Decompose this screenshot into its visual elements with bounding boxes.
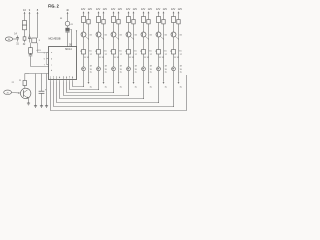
wire column 2 left mid1 xyxy=(98,23,100,33)
column 6 group xyxy=(155,8,168,103)
transistor Q3 xyxy=(111,32,116,37)
wire nest pin stubs xyxy=(50,80,52,82)
wire nest route 7 xyxy=(54,82,174,107)
wire column 2 left mid3 xyxy=(98,54,100,67)
svg-text:5: 5 xyxy=(44,53,45,55)
wire R4 collector xyxy=(24,74,26,81)
resistor R51 xyxy=(142,17,146,23)
wire oval to network xyxy=(13,38,17,40)
resistor R72 xyxy=(172,50,176,55)
svg-text:12V: 12V xyxy=(118,8,123,11)
ground G3 xyxy=(45,105,48,108)
wire drop x41 upper xyxy=(41,74,43,92)
wire input arrow xyxy=(12,92,20,94)
wire left rail 3 xyxy=(37,13,39,38)
wire column 5 left mid2 xyxy=(143,37,145,50)
transistor Q4 xyxy=(126,32,131,37)
LED D2 xyxy=(97,67,101,71)
svg-text:11 12: 11 12 xyxy=(129,57,135,59)
wire column 1 left mid1 xyxy=(83,23,85,33)
wire column 5 right terminal arrow xyxy=(148,82,150,84)
wire column 3 left mid2 xyxy=(113,37,115,50)
resistor R14 on right rail xyxy=(87,20,90,24)
wire column 6 left mid2 xyxy=(158,37,160,50)
transistor Q10 xyxy=(21,88,31,98)
wire column 5 left mid1 xyxy=(143,23,145,33)
wire column 7 right vertical xyxy=(178,13,180,82)
wire column 4 left mid3 xyxy=(128,54,130,67)
crystal Y1 xyxy=(32,38,41,43)
wire column 6 left bottom into nest xyxy=(158,71,160,103)
wire column 4 left mid1 xyxy=(128,23,130,33)
wire column 4 left top xyxy=(128,13,130,17)
wire column 7 left mid2 xyxy=(173,37,175,50)
wire Q3 emitter to right rail xyxy=(115,36,119,39)
svg-text:12V: 12V xyxy=(88,8,93,11)
svg-text:11 12: 11 12 xyxy=(114,57,120,59)
svg-text:12V: 12V xyxy=(156,8,161,11)
wire nest route 5 xyxy=(60,82,144,99)
svg-text:12V: 12V xyxy=(103,8,108,11)
wire column 5 left bottom into nest xyxy=(143,71,145,99)
column 7 group xyxy=(170,8,183,107)
transistor Q1 xyxy=(81,32,86,37)
wire column 4 left mid2 xyxy=(128,37,130,50)
column 1 group xyxy=(80,8,93,89)
pin stub left 2 xyxy=(47,58,49,60)
wire column 3 right terminal arrow xyxy=(118,82,120,84)
transistor Q2 xyxy=(96,32,101,37)
resistor R41 xyxy=(127,17,131,23)
svg-text:11 12: 11 12 xyxy=(99,57,105,59)
wire column 4 left bottom into nest xyxy=(128,71,130,96)
svg-text:12V: 12V xyxy=(96,8,101,11)
wire nest route 1 xyxy=(73,82,84,87)
op-amp U1 IC block MC14553 xyxy=(49,47,77,80)
ground G2 xyxy=(40,105,43,108)
wire column 5 left top xyxy=(143,13,145,17)
wire left rail 1 xyxy=(24,13,26,35)
wire column 1 right vertical xyxy=(88,13,90,82)
resistor R31 xyxy=(112,17,116,23)
LED D3 xyxy=(112,67,116,71)
wire second into IC top xyxy=(71,29,73,46)
resistor R44 on right rail xyxy=(132,20,135,24)
resistor R1 xyxy=(23,21,27,26)
ground G1 xyxy=(34,105,37,108)
wire column 1 left mid3 xyxy=(83,54,85,67)
transistor Q5 xyxy=(141,32,146,37)
wire drop x35 xyxy=(29,73,49,75)
resistor R22 xyxy=(97,50,101,55)
wire drop x46.7 xyxy=(46,74,48,105)
wire Q2 emitter to right rail xyxy=(100,36,104,39)
wire left rail 2 xyxy=(29,13,31,36)
svg-text:12V: 12V xyxy=(163,8,168,11)
resistor R21 xyxy=(97,17,101,23)
svg-text:6: 6 xyxy=(44,59,45,61)
wire column 2 right vertical xyxy=(103,13,105,82)
wire crystal chain down xyxy=(30,43,32,48)
svg-text:7: 7 xyxy=(44,65,45,67)
LED D5 xyxy=(142,67,146,71)
LED D7 xyxy=(172,67,176,71)
wire column 6 left mid3 xyxy=(158,54,160,67)
wire column 3 left top xyxy=(113,13,115,17)
svg-text:12V: 12V xyxy=(178,8,183,11)
resistor R2 xyxy=(23,25,27,30)
wire nest route 2 xyxy=(70,82,99,90)
wire column 4 right vertical xyxy=(133,13,135,82)
column 5 group xyxy=(140,8,153,99)
wire column 6 right terminal arrow xyxy=(163,82,165,84)
wire drop x41 lower xyxy=(41,93,43,104)
wire column 1 left mid2 xyxy=(83,37,85,50)
node input oval 30 xyxy=(5,37,12,41)
wire column 3 right vertical xyxy=(118,13,120,82)
resistor R11 xyxy=(82,17,86,23)
column 3 group xyxy=(110,8,123,93)
svg-text:12V: 12V xyxy=(111,8,116,11)
resistor R4 xyxy=(23,81,27,86)
wire column 3 left bottom into nest xyxy=(113,71,115,93)
wire left pins bus xyxy=(46,53,48,65)
wire Q6 emitter to right rail xyxy=(160,36,164,39)
wire column 2 right terminal arrow xyxy=(103,82,105,84)
wire column 5 right vertical xyxy=(148,13,150,82)
svg-text:12V: 12V xyxy=(126,8,131,11)
wire Q7 emitter to right rail xyxy=(175,36,179,39)
resistor R52 xyxy=(142,50,146,55)
resistor R24 on right rail xyxy=(102,20,105,24)
svg-text:d: d xyxy=(51,70,52,72)
resistor R61 xyxy=(157,17,161,23)
capacitor C3 xyxy=(28,34,31,42)
svg-text:12V: 12V xyxy=(81,8,86,11)
resistor R64 on right rail xyxy=(162,20,165,24)
wire column 6 left mid1 xyxy=(158,23,160,33)
column 2 group xyxy=(95,8,108,90)
wire column 2 left bottom into nest xyxy=(98,71,100,90)
wire IC right top stub xyxy=(76,31,78,47)
wire column 3 left mid1 xyxy=(113,23,115,33)
LED D1 xyxy=(82,67,86,71)
wire column 6 right vertical xyxy=(163,13,165,82)
transistor Q6 xyxy=(156,32,161,37)
resistor R12 xyxy=(82,50,86,55)
capacitor C4 xyxy=(29,53,33,66)
column 4 group xyxy=(125,8,138,96)
wire column 7 left bottom into nest xyxy=(173,71,175,107)
transistor Q9 xyxy=(65,21,73,26)
node input oval 20 xyxy=(4,90,12,94)
capacitor C1 xyxy=(16,36,19,46)
wire column 3 left mid3 xyxy=(113,54,115,67)
resistor R54 on right rail xyxy=(147,20,150,24)
LED D4 xyxy=(127,67,131,71)
pin stub left 3 xyxy=(47,64,49,66)
resistor R3 xyxy=(29,48,33,54)
wire elbow into IC xyxy=(31,66,49,68)
transistor Q7 xyxy=(171,32,176,37)
svg-text:12V: 12V xyxy=(133,8,138,11)
resistor R42 xyxy=(127,50,131,55)
capacitor C2 xyxy=(23,36,26,47)
svg-text:c: c xyxy=(51,65,52,67)
wire column 1 right terminal arrow xyxy=(88,82,90,84)
resistor R62 xyxy=(157,50,161,55)
wire column 4 right terminal arrow xyxy=(133,82,135,84)
wire Q4 emitter to right rail xyxy=(130,36,134,39)
wire column 5 left mid3 xyxy=(143,54,145,67)
resistor R71 xyxy=(172,17,176,23)
wire column 7 left top xyxy=(173,13,175,17)
wire column 1 left top xyxy=(83,13,85,17)
svg-text:12V: 12V xyxy=(141,8,146,11)
svg-text:FIG. 2: FIG. 2 xyxy=(48,4,59,9)
wire nest route 8 xyxy=(51,75,187,111)
svg-text:MC14: MC14 xyxy=(65,48,72,51)
wire nest route 3 xyxy=(67,82,114,93)
capacitor C6 polarized xyxy=(65,26,69,47)
svg-text:MC14553B: MC14553B xyxy=(49,37,61,40)
svg-text:11 12: 11 12 xyxy=(144,57,150,59)
svg-text:11 12: 11 12 xyxy=(174,57,180,59)
resistor R34 on right rail xyxy=(117,20,120,24)
LED D6 xyxy=(157,67,161,71)
svg-text:11 12: 11 12 xyxy=(84,57,90,59)
svg-text:11 12: 11 12 xyxy=(159,57,165,59)
wire column 7 left mid3 xyxy=(173,54,175,67)
capacitor C5 xyxy=(39,88,47,93)
svg-text:12V: 12V xyxy=(171,8,176,11)
wire nest route 6 xyxy=(57,82,159,103)
wire column 7 left mid1 xyxy=(173,23,175,33)
wire column 1 left bottom into nest xyxy=(83,71,85,87)
wire column 2 left mid2 xyxy=(98,37,100,50)
wire emitter to ground xyxy=(28,99,30,102)
wire column 7 right terminal arrow xyxy=(178,82,180,84)
wire column 2 left top xyxy=(98,13,100,17)
ground G4 xyxy=(27,102,30,105)
svg-text:12V: 12V xyxy=(148,8,153,11)
pin stub left 1 xyxy=(47,52,49,54)
wire nest route 4 xyxy=(64,82,129,96)
resistor R74 on right rail xyxy=(177,20,180,24)
wire column 6 left top xyxy=(158,13,160,17)
wire Q1 emitter to right rail xyxy=(85,36,89,39)
wire above IC xyxy=(67,13,69,21)
resistor R32 xyxy=(112,50,116,55)
wire Q5 emitter to right rail xyxy=(145,36,149,39)
